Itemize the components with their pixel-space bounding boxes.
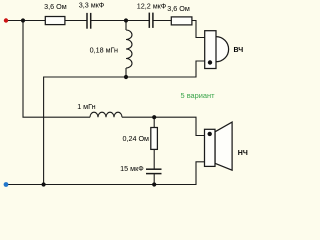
resistor R2 3,6 Ом: [171, 17, 192, 25]
wire node B to L1 top: [125, 21, 127, 31]
svg-text:0,24 Ом: 0,24 Ом: [122, 134, 149, 143]
wire input plus to R1: [6, 20, 45, 22]
wire bottom rail to LF speaker minus terminal: [6, 162, 205, 185]
svg-text:3,3 мкФ: 3,3 мкФ: [79, 1, 105, 10]
node C junction: [124, 75, 128, 79]
HF speaker ВЧ dome: [216, 37, 229, 62]
svg-text:НЧ: НЧ: [238, 150, 248, 157]
capacitor C2 12,2 мкФ: [148, 13, 150, 28]
svg-text:15 мкФ: 15 мкФ: [120, 164, 144, 173]
wire R1 to C1: [65, 20, 87, 22]
node B junction: [124, 18, 128, 22]
node D junction: [152, 115, 156, 119]
wire C2 to R2: [153, 20, 171, 22]
bottom rail junction left: [42, 182, 46, 186]
wire node D down to R3: [153, 117, 155, 127]
node A junction: [21, 18, 25, 22]
svg-text:12,2 мкФ: 12,2 мкФ: [137, 1, 167, 10]
bottom rail junction right: [152, 182, 156, 186]
inductor L1 0,18 мГн (vertical, 4 arcs bulging right): [126, 30, 132, 68]
svg-text:ВЧ: ВЧ: [233, 47, 243, 54]
resistor R1 3,6 Ом: [45, 17, 65, 25]
resistor R3 0,24 Ом (vertical): [151, 128, 158, 150]
svg-text:1 мГн: 1 мГн: [77, 102, 95, 111]
wire HF speaker minus terminal and return rail down to bottom: [44, 61, 205, 185]
wire R2 to HF speaker plus terminal: [192, 21, 205, 38]
wire C1 to node B to C2: [91, 20, 150, 22]
svg-text:5 вариант: 5 вариант: [181, 91, 216, 100]
wire node A down and right to LF inductor: [23, 21, 90, 118]
capacitor C1 3,3 мкФ: [86, 13, 88, 29]
wire R3 to C3: [153, 149, 155, 169]
svg-text:3,6 Ом: 3,6 Ом: [44, 2, 67, 11]
inductor L2 1 мГн (horizontal, 4 arcs bulging up): [90, 112, 122, 117]
LF speaker НЧ cone: [215, 122, 232, 170]
wire C3 to bottom rail: [153, 174, 155, 185]
svg-text:3,6 Ом: 3,6 Ом: [167, 4, 190, 13]
wire L2 to LF speaker plus terminal: [122, 117, 205, 135]
wire L1 bottom to node C: [125, 68, 127, 77]
LF speaker polarity dot: [208, 132, 212, 136]
HF speaker polarity dot: [208, 60, 212, 64]
capacitor C3 15 мкФ (horizontal plates): [146, 168, 162, 170]
input minus terminal (blue): [4, 182, 9, 187]
HF speaker ВЧ body: [205, 31, 216, 69]
svg-text:0,18 мГн: 0,18 мГн: [90, 46, 118, 55]
input plus terminal (red): [4, 18, 8, 22]
LF speaker НЧ body: [205, 129, 216, 166]
